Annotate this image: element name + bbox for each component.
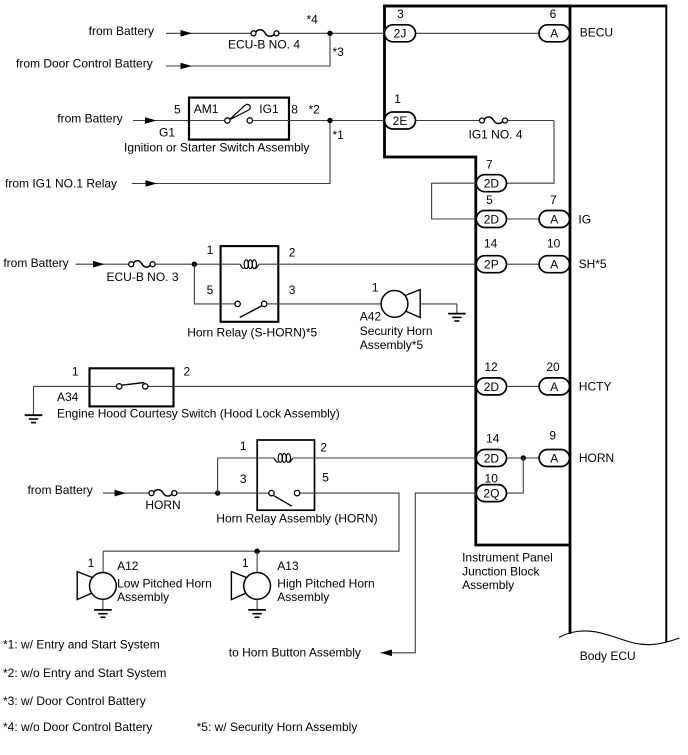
label *2 [309, 102, 321, 116]
label HORN fuse [145, 498, 180, 512]
svg-text:20: 20 [546, 360, 560, 374]
junction dot row SH [192, 262, 197, 267]
pin 8 label ignition [291, 102, 298, 116]
wire fuse IG1 NO.4 down to 2D pin 7 [507, 121, 555, 184]
svg-text:1: 1 [372, 280, 379, 294]
label HCTY [579, 380, 612, 394]
svg-text:Assembly: Assembly [462, 578, 514, 592]
wire down to low pitched horn [102, 551, 104, 572]
ignition switch blade [229, 104, 250, 120]
svg-text:A: A [550, 258, 558, 272]
wire HORN relay pin5 down to horns [103, 493, 399, 551]
pin 1 label HORN relay [240, 439, 247, 453]
label IG [578, 212, 591, 226]
pin 5 label ignition [174, 102, 181, 116]
pin 5 label S-HORN relay [207, 283, 214, 297]
svg-text:*4: w/o Door Control Battery: *4: w/o Door Control Battery [3, 720, 152, 734]
connector 2Q [476, 485, 506, 502]
svg-text:5: 5 [174, 102, 181, 116]
low pitched horn A12 symbol [77, 572, 116, 600]
svg-text:ECU-B NO. 4: ECU-B NO. 4 [228, 38, 300, 52]
pin 14 label 2D HORN [486, 432, 500, 446]
svg-text:*1: *1 [333, 128, 345, 142]
svg-text:BECU: BECU [580, 26, 613, 40]
svg-text:Ignition or Starter Switch Ass: Ignition or Starter Switch Assembly [124, 140, 309, 154]
arrow to horn button assembly [381, 650, 393, 657]
connector A pin 10 [539, 256, 569, 273]
wire security horn to ground [420, 303, 457, 305]
high pitched horn A13 symbol [231, 572, 270, 600]
relay coil HORN wire [257, 457, 314, 459]
wire 2Q to horn button assembly [381, 493, 477, 653]
label HORN row [579, 451, 614, 465]
pin 5 label 2D [486, 193, 493, 207]
svg-text:8: 8 [291, 102, 298, 116]
junction dot row 1 [327, 31, 332, 36]
wire junction down to pin 5 S-HORN [194, 264, 220, 304]
pin 12 label [484, 360, 498, 374]
svg-text:G1: G1 [159, 125, 175, 139]
pin 3 label S-HORN relay [289, 283, 296, 297]
label ECU-B NO. 3 [106, 270, 178, 284]
svg-text:Engine Hood Courtesy Switch (H: Engine Hood Courtesy Switch (Hood Lock A… [57, 406, 340, 420]
svg-text:5: 5 [486, 193, 493, 207]
fuse HORN [149, 490, 177, 496]
instrument panel junction block border [385, 6, 571, 545]
wire inside ignition switch [189, 120, 289, 122]
wire from Battery to junction block row 1 [166, 32, 385, 34]
svg-text:A42: A42 [360, 310, 382, 324]
svg-text:10: 10 [547, 237, 561, 251]
svg-text:3: 3 [289, 283, 296, 297]
svg-text:Low Pitched Horn: Low Pitched Horn [117, 577, 212, 591]
pin 9 label [549, 428, 556, 442]
svg-text:AM1: AM1 [194, 102, 219, 116]
wire inside hood switch [90, 385, 174, 387]
junction dot row HORN block [521, 455, 526, 460]
ground for hood courtesy switch [25, 386, 43, 422]
svg-text:1: 1 [242, 556, 249, 570]
relay coil HORN [274, 454, 293, 463]
svg-text:2: 2 [320, 441, 327, 455]
wire from Battery to HORN fuse [103, 492, 257, 494]
svg-text:7: 7 [550, 193, 557, 207]
S-HORN relay switch contacts [235, 301, 267, 306]
label from Battery (row HORN) [27, 483, 92, 497]
pin 2 label S-HORN relay [289, 245, 296, 259]
svg-text:from Battery: from Battery [3, 256, 68, 270]
wire ignition switch to 2E [289, 120, 385, 122]
label from IG1 NO.1 Relay [5, 176, 117, 190]
svg-text:1: 1 [72, 365, 79, 379]
wire S-HORN pin3 to security horn [278, 303, 381, 305]
pin 7 label 2D upper [486, 157, 493, 171]
hood switch blade [122, 383, 145, 386]
svg-text:Assembly: Assembly [117, 590, 169, 604]
svg-text:A: A [550, 212, 558, 226]
svg-text:9: 9 [549, 428, 556, 442]
pin 1 label hood switch [72, 365, 79, 379]
svg-text:HCTY: HCTY [579, 380, 612, 394]
pin 1 label A13 [242, 556, 249, 570]
label IG1 NO. 4 [468, 128, 522, 142]
svg-text:3: 3 [397, 7, 404, 21]
label *4 [307, 13, 319, 27]
svg-text:14: 14 [486, 432, 500, 446]
wire 2D to A row IG [507, 218, 540, 220]
body ECU break wavy line [559, 631, 679, 645]
relay coil S-HORN wire [221, 263, 279, 265]
svg-text:2J: 2J [394, 27, 407, 41]
arrow on Door Control Battery wire [181, 63, 193, 70]
wire from Battery to ignition switch [133, 120, 189, 122]
label from Battery (row SH) [3, 256, 68, 270]
svg-text:1: 1 [394, 92, 401, 106]
label *3 [333, 45, 345, 59]
svg-text:A: A [550, 380, 558, 394]
svg-text:to Horn Button Assembly: to Horn Button Assembly [229, 645, 361, 659]
arrow on wire row SH [93, 261, 105, 268]
footnote *4 [3, 720, 152, 734]
connector 2P [476, 256, 506, 273]
label Engine Hood Courtesy Switch [57, 406, 340, 420]
svg-text:7: 7 [486, 157, 493, 171]
wire ground to hood switch box [34, 385, 90, 387]
svg-text:ECU-B NO. 3: ECU-B NO. 3 [106, 270, 178, 284]
pin 2 label hood switch [184, 365, 191, 379]
S-HORN relay switch blade [240, 305, 263, 317]
svg-text:SH*5: SH*5 [579, 257, 607, 271]
svg-text:5: 5 [207, 283, 214, 297]
footnote *5 [197, 720, 358, 734]
svg-text:IG1: IG1 [259, 102, 279, 116]
svg-text:Security Horn: Security Horn [360, 324, 433, 338]
fuse ECU-B NO. 4 [251, 30, 279, 36]
svg-text:2P: 2P [484, 258, 499, 272]
pin 3 label HORN relay [240, 472, 247, 486]
junction dot horns [254, 549, 259, 554]
connector A pin 7 [539, 211, 569, 228]
svg-text:1: 1 [240, 439, 247, 453]
ground for low pitched horn [94, 599, 112, 617]
ignition switch box G1 [189, 98, 289, 140]
wire junction up to HORN relay pin 1 [218, 458, 258, 493]
label A34 [57, 390, 79, 404]
label Horn Relay Assembly (HORN) [216, 511, 377, 525]
svg-text:2D: 2D [484, 212, 500, 226]
pin 5 label HORN relay [322, 471, 329, 485]
label Ignition or Starter Switch Assembly [124, 140, 309, 154]
label A12 Low Pitched Horn Assembly [117, 559, 212, 604]
svg-text:*5: w/ Security Horn Assembly: *5: w/ Security Horn Assembly [197, 720, 358, 734]
svg-text:Assembly*5: Assembly*5 [360, 338, 424, 352]
wire 2J to A row 1 [416, 32, 540, 34]
svg-text:A34: A34 [57, 390, 79, 404]
label from Battery (row 2) [57, 111, 122, 125]
connector A pin 9 [539, 450, 569, 467]
fuse ECU-B NO. 3 [129, 261, 155, 267]
wire 2D pin7 loop to 2D pin5 [432, 183, 477, 219]
security horn A42 symbol [381, 290, 420, 318]
svg-text:2: 2 [184, 365, 191, 379]
connector A pin 6 [539, 25, 570, 42]
relay coil S-HORN [240, 260, 259, 269]
fuse IG1 NO. 4 [480, 117, 508, 123]
svg-text:from Battery: from Battery [89, 24, 154, 38]
label to Horn Button Assembly [229, 645, 361, 659]
connector 2D pin 7 [476, 175, 506, 192]
pin 10 label A row SH [547, 237, 561, 251]
pin 6 label [550, 7, 557, 21]
connector 2D pin 14 [476, 450, 506, 467]
svg-text:Horn Relay (S-HORN)*5: Horn Relay (S-HORN)*5 [187, 325, 317, 339]
connector 2J [385, 25, 416, 42]
svg-text:12: 12 [484, 360, 498, 374]
label Body ECU [580, 649, 636, 663]
connector A pin 20 [539, 378, 569, 395]
wire 2D to A row HCTY [507, 385, 540, 387]
label *1 [333, 128, 345, 142]
arrow on from-Battery wire row 1 [181, 30, 193, 37]
svg-text:*1: w/ Entry and Start System: *1: w/ Entry and Start System [3, 637, 160, 651]
wire 2D to A row HORN [507, 457, 540, 459]
svg-text:2D: 2D [484, 380, 500, 394]
svg-text:from Battery: from Battery [27, 483, 92, 497]
horn relay HORN box [257, 440, 314, 510]
ground for security horn [448, 304, 466, 321]
wire S-HORN pin2 to 2P [278, 263, 476, 265]
wire from IG1 NO.1 Relay [132, 121, 330, 184]
pin 1 label security horn [372, 280, 379, 294]
pin 1 label A12 [88, 556, 95, 570]
svg-text:1: 1 [88, 556, 95, 570]
svg-text:*3: w/ Door Control Battery: *3: w/ Door Control Battery [3, 694, 146, 708]
label A13 High Pitched Horn Assembly [277, 559, 374, 604]
footnote *2 [3, 666, 166, 680]
svg-text:Junction Block: Junction Block [462, 564, 540, 578]
svg-text:A: A [550, 27, 558, 41]
junction dot row HORN [215, 490, 220, 495]
label G1 [159, 125, 175, 139]
wire 2P to A row SH [507, 263, 540, 265]
wire hood switch to 2D HCTY [174, 385, 477, 387]
pin 2 label HORN relay [320, 441, 327, 455]
pin 20 label [546, 360, 560, 374]
arrow on wire row HORN [115, 490, 127, 497]
svg-text:3: 3 [240, 472, 247, 486]
svg-text:Assembly: Assembly [277, 590, 329, 604]
label AM1 [194, 102, 219, 116]
pin 7 label A [550, 193, 557, 207]
arrow on wire row 2 [145, 117, 157, 124]
svg-text:A12: A12 [117, 559, 139, 573]
label Instrument Panel Junction Block Assembly [462, 551, 553, 592]
body ECU box [383, 6, 667, 642]
svg-text:*3: *3 [333, 45, 345, 59]
label from Battery (row 1) [89, 24, 154, 38]
label IG1 [259, 102, 279, 116]
svg-text:2Q: 2Q [483, 487, 499, 501]
svg-text:from Battery: from Battery [57, 111, 122, 125]
hood courtesy switch box [90, 368, 174, 406]
wire down to high pitched horn [256, 551, 258, 572]
HORN relay switch blade [274, 496, 292, 507]
svg-text:Horn Relay Assembly (HORN): Horn Relay Assembly (HORN) [216, 511, 377, 525]
svg-text:6: 6 [550, 7, 557, 21]
label SH*5 [579, 257, 607, 271]
wire from Battery to S-HORN relay [76, 263, 221, 265]
HORN relay switch contacts [269, 490, 300, 495]
svg-text:from Door Control Battery: from Door Control Battery [16, 57, 153, 71]
wire switch row inside S-HORN [221, 303, 279, 305]
label ECU-B NO. 4 [228, 38, 300, 52]
label BECU [580, 26, 613, 40]
horn relay S-HORN box [221, 246, 279, 322]
pin 1 label 2E [394, 92, 401, 106]
svg-text:HORN: HORN [579, 451, 614, 465]
svg-text:Body ECU: Body ECU [580, 649, 636, 663]
label from Door Control Battery [16, 57, 153, 71]
pin 3 label [397, 7, 404, 21]
footnote *1 [3, 637, 160, 651]
svg-text:*4: *4 [307, 13, 319, 27]
svg-text:A13: A13 [277, 559, 299, 573]
pin 14 label 2P [484, 237, 498, 251]
svg-text:5: 5 [322, 471, 329, 485]
footnote *3 [3, 694, 146, 708]
svg-text:IG: IG [578, 212, 591, 226]
svg-text:A: A [550, 451, 558, 465]
svg-text:2E: 2E [393, 114, 408, 128]
ground for high pitched horn [248, 599, 266, 617]
label Horn Relay (S-HORN)*5 [187, 325, 317, 339]
wire 2Q up to junction dot [507, 458, 524, 493]
svg-text:2: 2 [289, 245, 296, 259]
svg-text:IG1 NO. 4: IG1 NO. 4 [468, 128, 522, 142]
wire switch row inside HORN relay [257, 492, 314, 494]
arrow on IG1 NO.1 Relay wire [146, 180, 158, 187]
svg-text:*2: *2 [309, 102, 321, 116]
ignition switch contacts [225, 118, 253, 123]
svg-text:Instrument Panel: Instrument Panel [462, 551, 553, 565]
svg-text:10: 10 [485, 472, 499, 486]
svg-text:2D: 2D [484, 451, 500, 465]
wire HORN relay pin2 to 2D [315, 457, 477, 459]
svg-text:14: 14 [484, 237, 498, 251]
svg-text:*2: w/o Entry and Start System: *2: w/o Entry and Start System [3, 666, 166, 680]
junction dot row 2 [327, 118, 332, 123]
wire from Door Control Battery [166, 33, 330, 66]
label A42 Security Horn Assembly*5 [360, 310, 433, 352]
wire 2E to fuse IG1 NO.4 [416, 120, 555, 122]
svg-text:2D: 2D [484, 177, 500, 191]
svg-text:from IG1 NO.1 Relay: from IG1 NO.1 Relay [5, 176, 117, 190]
connector 2E [385, 112, 416, 129]
svg-text:HORN: HORN [145, 498, 180, 512]
pin 1 label S-HORN relay [207, 243, 214, 257]
svg-text:1: 1 [207, 243, 214, 257]
connector 2D pin 5 [476, 211, 506, 228]
connector 2D pin 12 [476, 378, 506, 395]
pin 10 label 2Q [485, 472, 499, 486]
hood switch contacts [117, 384, 148, 389]
svg-text:High Pitched Horn: High Pitched Horn [277, 577, 374, 591]
